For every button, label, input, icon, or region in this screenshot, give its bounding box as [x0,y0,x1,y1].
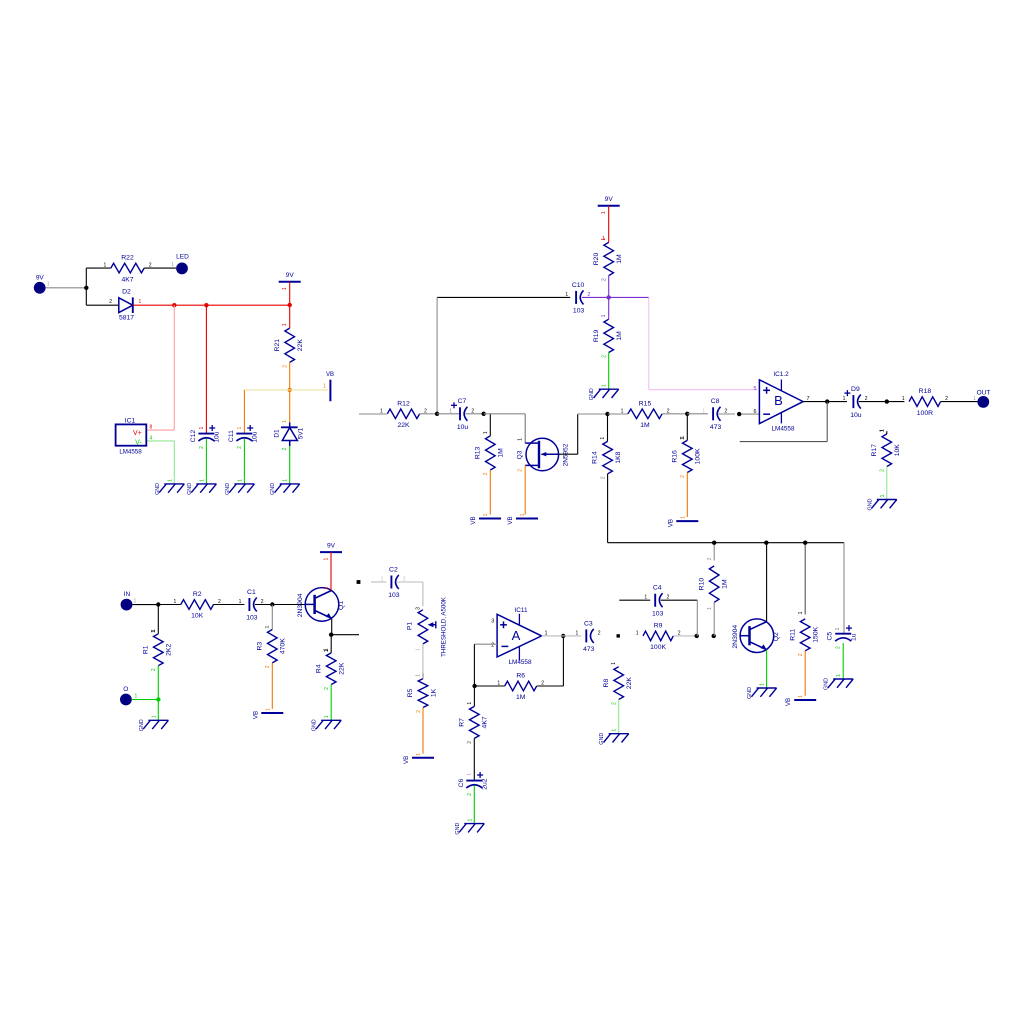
wire C4 to node [661,600,698,636]
svg-text:1M: 1M [516,694,526,701]
svg-text:470K: 470K [280,638,287,654]
supply symbol VB (Q3) [507,513,538,524]
resistor R17 10K [871,429,901,472]
svg-text:1: 1 [324,715,330,718]
node junction C9/R18 [885,399,889,403]
resistor R4 22K [315,648,345,690]
svg-text:1: 1 [798,695,804,698]
svg-text:4K7: 4K7 [482,716,489,728]
resistor R13 1M [474,431,504,475]
wire node to Q1 base [272,604,306,606]
svg-text:1K8: 1K8 [615,451,622,463]
svg-text:1: 1 [843,396,846,402]
svg-text:4K7: 4K7 [121,276,133,283]
svg-text:1: 1 [707,607,713,610]
svg-text:1: 1 [611,662,617,665]
svg-text:9V: 9V [36,275,45,282]
connector pad IN [121,591,137,610]
wire to C2 [371,581,386,583]
wire 9V bar to R21 [289,282,291,328]
svg-text:2: 2 [467,741,473,744]
svg-text:473: 473 [710,424,722,431]
svg-text:8: 8 [150,425,153,431]
svg-text:1: 1 [483,513,489,516]
svg-text:R13: R13 [474,446,481,459]
svg-text:5817: 5817 [119,315,134,322]
svg-text:1: 1 [416,753,422,756]
wire C9 to node [859,401,887,403]
svg-text:22K: 22K [339,662,346,675]
svg-text:1: 1 [520,513,526,516]
svg-text:1: 1 [836,674,842,677]
svg-text:C5: C5 [827,632,834,641]
svg-text:3: 3 [416,607,422,610]
capacitor C6 2u2 [458,772,489,796]
svg-text:R15: R15 [639,400,652,407]
svg-text:R16: R16 [671,450,678,463]
node marker sidechain [357,580,361,584]
supply symbol 9V (Q1) [320,543,342,561]
svg-text:1u: 1u [851,633,858,641]
wire V- to GND [146,441,174,484]
wire stub left of R12 [359,413,387,415]
svg-text:2: 2 [483,472,489,475]
svg-text:9V: 9V [605,196,614,203]
node junction C7/R13 [482,412,486,416]
wire IN to junction [132,604,158,606]
resistor R19 1M [593,314,623,358]
resistor R15 1M [621,400,670,429]
svg-text:1: 1 [167,479,173,482]
svg-text:2N3904: 2N3904 [732,625,739,649]
svg-text:9V: 9V [327,543,336,550]
svg-text:1: 1 [497,681,500,687]
svg-text:R18: R18 [919,388,932,395]
supply symbol VB (R3) [252,708,283,719]
node junction C1/R3/Q1 [270,602,274,606]
svg-text:2: 2 [602,278,608,281]
wire Q2 emitter to GND [766,650,768,688]
svg-text:2: 2 [600,476,606,479]
supply symbol VB (R11) [785,695,816,706]
resistor R16 100K [671,436,701,478]
wire Q3 drain riser [524,414,526,443]
wire R8 to GND [618,700,620,734]
wire C12 to GND [205,439,207,484]
wire R13 to VB [489,470,491,515]
svg-text:5V1: 5V1 [298,427,305,439]
node junction output [825,399,829,403]
svg-text:1: 1 [467,818,473,821]
resistor R11 150K [789,614,819,656]
svg-text:2: 2 [283,365,289,368]
power block IC1 LM4558 [116,417,147,455]
transistor Q1 2N3904 [297,588,345,622]
wire op-amp output [803,401,847,403]
svg-text:P1: P1 [407,622,414,630]
node junction R6/R7 [472,684,476,688]
wire R13 lead [489,414,491,436]
svg-text:1: 1 [324,648,330,651]
wire Q3 source to VB [524,465,526,514]
svg-text:Q2: Q2 [773,632,780,641]
resistor R12 22K [380,400,427,429]
svg-text:IC11: IC11 [514,607,527,614]
node junction V+ IC1 [172,303,176,307]
svg-text:LM4558: LM4558 [508,659,532,666]
svg-text:1: 1 [265,708,271,711]
ground GND (C5) [824,674,854,690]
resistor R5 1K [407,674,437,713]
svg-text:1: 1 [151,629,157,632]
node junction R10 bottom [712,634,716,638]
capacitor C12 10u [190,425,221,449]
wire node to C10 [582,296,609,298]
svg-text:GND: GND [270,483,276,495]
svg-text:2: 2 [680,475,686,478]
wire node to R7 [473,686,475,706]
svg-text:VB: VB [470,516,477,524]
svg-text:100K: 100K [650,644,666,651]
svg-text:1K: 1K [430,688,437,697]
svg-text:1: 1 [644,595,647,601]
node junction bus/R10 [712,541,716,545]
svg-text:R1: R1 [142,645,149,654]
wire R11 to VB [804,651,806,696]
svg-text:LED: LED [176,253,189,260]
wire C8 to node [719,413,735,415]
svg-text:C11: C11 [228,430,235,442]
svg-text:1M: 1M [616,254,623,264]
resistor R22 4K7 [104,255,152,284]
svg-text:103: 103 [246,615,258,622]
svg-text:1: 1 [380,408,383,414]
svg-text:2: 2 [518,469,524,472]
svg-text:9V: 9V [286,272,295,279]
svg-text:1: 1 [139,299,142,305]
ground GND (Q2) [747,683,777,699]
wire divider to R19 [608,297,610,319]
svg-text:C1: C1 [247,589,256,596]
capacitor C2 103 [381,566,406,599]
capacitor C10 103 [565,282,590,315]
svg-text:IC1: IC1 [125,417,136,424]
node junction input [156,602,160,606]
svg-text:2: 2 [798,653,804,656]
connector pad O [120,686,132,705]
capacitor C8 473 [702,398,727,431]
svg-text:1: 1 [282,420,288,423]
svg-text:R22: R22 [121,255,134,262]
capacitor C9 10u [843,386,868,419]
wire C7 to node [466,413,484,415]
node junction divider [607,295,611,299]
svg-text:1: 1 [879,429,885,432]
svg-text:R3: R3 [256,642,263,651]
capacitor C4 103 [644,585,669,618]
svg-text:VB: VB [667,519,674,527]
svg-text:1: 1 [381,577,384,583]
diode D2 5817 [109,288,141,321]
svg-text:C10: C10 [572,282,585,289]
wire C4 branch [619,599,650,601]
svg-text:150K: 150K [813,626,820,642]
wire C10 to R12 node [437,297,570,413]
node junction 9V [84,286,88,290]
transistor Q2 2N3904 [732,619,780,653]
wire 9V to Q1 collector [324,552,332,590]
svg-text:2u2: 2u2 [482,778,489,790]
svg-text:R20: R20 [593,253,600,266]
svg-text:1: 1 [47,282,50,288]
node junction bus/R11 [803,541,807,545]
svg-text:IC1.2: IC1.2 [773,371,789,378]
svg-text:C7: C7 [458,398,467,405]
transistor Q3 2N5952 JFET [517,438,570,472]
svg-text:C12: C12 [190,430,197,443]
svg-text:2: 2 [725,408,728,414]
svg-text:R14: R14 [592,451,599,464]
wire junction to R2 [158,604,181,606]
wire R16 lead [680,414,687,441]
svg-text:1: 1 [612,729,618,732]
ground GND (C11) [225,479,255,495]
svg-text:1: 1 [104,263,107,269]
wire Q3 gate riser [559,414,578,454]
svg-text:1: 1 [518,438,524,441]
wire Q1 emitter to node [331,619,333,635]
svg-text:2: 2 [416,710,422,713]
svg-text:C8: C8 [711,398,720,405]
ground GND (R8) [599,729,629,745]
node junction 9V rail [288,303,292,307]
svg-text:2: 2 [491,642,494,648]
wire R19 to GND [608,353,610,390]
wire R10 bottom lead [707,602,714,636]
svg-text:10u: 10u [457,424,469,431]
svg-text:2K2: 2K2 [166,644,173,656]
wire R3 to VB [271,663,273,709]
supply symbol VB (R13) [470,513,501,524]
wire R11 top lead [798,543,805,615]
wire R10 top lead [707,543,714,561]
svg-text:1: 1 [324,557,330,560]
svg-text:1: 1 [680,516,686,519]
ground GND (C12) [187,479,217,495]
svg-text:C2: C2 [389,566,398,573]
svg-text:R2: R2 [193,591,202,598]
svg-text:2: 2 [282,447,288,450]
svg-text:R12: R12 [397,400,410,407]
svg-text:100R: 100R [917,410,933,417]
op-amp IC11 LM4558 (A) [491,607,547,666]
svg-text:VB: VB [252,711,259,719]
svg-text:1: 1 [449,408,452,414]
wire junction to R22 [86,268,111,288]
capacitor C3 473 [576,620,601,653]
wire R4 lead [324,635,331,653]
wire R9 to node [673,635,696,637]
svg-text:Q1: Q1 [338,601,345,610]
wire pin2 to R6 node [474,644,497,686]
svg-text:R21: R21 [274,339,281,352]
svg-text:GND: GND [225,483,231,495]
node junction VB [288,388,292,392]
resistor R3 470K [256,625,286,669]
svg-text:1M: 1M [498,448,505,458]
wire R18 to OUT pad [941,401,978,403]
svg-text:2: 2 [880,469,886,472]
svg-text:1: 1 [239,599,242,605]
ground GND (D1) [270,479,300,495]
svg-text:1: 1 [836,627,842,630]
resistor R7 4K7 [458,702,488,744]
wire R5 to VB [422,708,424,754]
node junction R14 [605,412,609,416]
wire R1 lead [151,605,158,634]
svg-text:O: O [123,686,128,693]
capacitor C5 1u [827,625,858,649]
svg-text:1: 1 [416,648,422,651]
svg-text:2: 2 [151,668,157,671]
supply symbol VB (R5) [403,753,434,764]
wire R17 to GND [886,467,888,500]
wire junction to D2 [86,288,119,305]
svg-text:1: 1 [680,436,686,439]
wire R14 to bus [608,474,844,543]
svg-text:1: 1 [702,408,705,414]
zener diode D1 5V1 [274,420,305,451]
capacitor C1 103 [239,589,264,622]
wire R2 to C1 [214,604,245,606]
wire C11 to GND [243,439,245,484]
svg-text:1: 1 [199,479,205,482]
supply symbol VB (R16) [667,516,698,527]
svg-text:2N5952: 2N5952 [563,443,570,466]
svg-text:1: 1 [237,479,243,482]
wire R20 to node [608,276,610,298]
wire D1 to GND [289,446,291,484]
svg-text:1: 1 [282,323,288,326]
supply symbol VB (right) [323,372,334,401]
svg-text:GND: GND [824,678,830,690]
svg-text:1M: 1M [722,579,729,589]
svg-text:3: 3 [491,619,494,625]
svg-text:2: 2 [467,793,473,796]
svg-text:V+: V+ [133,430,142,437]
svg-text:2: 2 [237,446,243,449]
svg-text:10u: 10u [850,412,862,419]
wire 9V pad to junction [46,287,87,289]
node junction C8/pin6 [737,412,741,416]
svg-text:1M: 1M [616,331,623,341]
svg-text:10K: 10K [894,444,901,457]
ground GND (R1) [139,715,169,731]
wire emitter stub [331,634,359,636]
svg-text:1: 1 [576,630,579,636]
svg-text:1: 1 [636,630,639,636]
svg-text:103: 103 [573,308,585,315]
svg-text:A: A [512,628,521,643]
svg-text:1: 1 [416,674,422,677]
svg-text:R9: R9 [654,623,663,630]
wire R1 to GND [157,666,159,721]
wire R17 stub [879,429,886,434]
svg-text:R7: R7 [458,718,465,727]
svg-text:LM4558: LM4558 [771,426,795,433]
wire node to R18 [887,401,905,403]
svg-text:22K: 22K [297,339,304,352]
svg-text:2: 2 [324,586,330,589]
svg-text:GND: GND [187,483,193,495]
svg-text:1: 1 [174,599,177,605]
svg-text:1: 1 [600,437,606,440]
svg-text:1: 1 [467,773,473,776]
wire VB node to C11 [244,390,289,434]
connector pad LED [171,253,189,274]
svg-text:1: 1 [798,611,804,614]
wire R7 to C6 [467,738,474,780]
wire R14 top lead [607,414,609,441]
svg-text:1: 1 [902,396,905,402]
svg-text:1: 1 [283,479,289,482]
ground GND (R19) [589,384,619,400]
wire R21 to VB node [289,362,291,423]
svg-text:2: 2 [612,702,618,705]
node junction bus/Q2 [764,541,768,545]
svg-text:R8: R8 [603,679,610,688]
wire C5 riser [835,543,844,634]
svg-text:1: 1 [282,287,288,290]
svg-text:2: 2 [598,630,601,636]
svg-text:R5: R5 [407,688,414,697]
svg-text:GND: GND [312,719,318,731]
wire node to op-amp pin6 [741,413,759,415]
svg-text:GND: GND [747,687,753,699]
svg-text:R6: R6 [516,673,525,680]
wire R15 to node [662,413,687,415]
wire VB node to VB symbol [290,389,329,391]
svg-text:5: 5 [753,386,756,392]
node marker C3/R8/R9 [617,634,620,637]
svg-text:GND: GND [589,388,595,400]
resistor R10 1M [698,561,728,608]
svg-text:VB: VB [785,698,792,706]
wire output to C3 [542,635,582,637]
node junction R12/C7 [435,412,439,416]
svg-text:1: 1 [880,494,886,497]
capacitor C11 10u [228,425,259,449]
ground GND (R4) [312,715,342,731]
node junction emitter [329,633,333,637]
wire C5 to GND [842,643,844,679]
svg-text:GND: GND [455,823,461,835]
node junction R15/R16 [685,412,689,416]
svg-text:1: 1 [134,599,137,605]
wire node to C7 [437,413,460,415]
svg-text:R4: R4 [315,664,322,673]
svg-text:2: 2 [109,299,112,305]
svg-text:100K: 100K [695,448,702,464]
node junction C4/R9 [695,634,699,638]
svg-text:1: 1 [483,431,489,434]
svg-text:1: 1 [602,384,608,387]
svg-text:R17: R17 [871,444,878,457]
connector pad OUT [973,389,990,408]
svg-text:1: 1 [601,314,607,317]
wire 9V to R20 [602,206,609,243]
svg-text:103: 103 [388,592,400,599]
